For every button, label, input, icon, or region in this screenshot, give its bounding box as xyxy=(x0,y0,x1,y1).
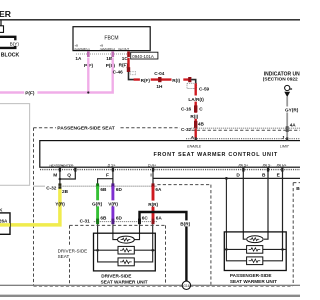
connector 6B tick at C-32 xyxy=(96,183,99,189)
svg-text:1A: 1A xyxy=(75,56,82,61)
svg-text:M: M xyxy=(290,87,293,91)
inline label P(F) xyxy=(24,89,37,95)
fuse block fragment wire xyxy=(0,21,2,27)
pin J tick xyxy=(286,137,288,140)
svg-text:P(F): P(F) xyxy=(25,90,35,95)
svg-text:(SECTION 0922: (SECTION 0922 xyxy=(263,77,298,83)
svg-text:6C: 6C xyxy=(142,216,149,221)
yellow wire over ref box xyxy=(0,223,10,227)
svg-text:HEATER-: HEATER- xyxy=(61,163,74,167)
svg-text:P(F): P(F) xyxy=(106,63,116,68)
label B(Y) xyxy=(9,40,22,46)
svg-text:B(: B( xyxy=(296,186,300,191)
svg-text:ER: ER xyxy=(0,9,12,19)
wire F jog xyxy=(98,179,113,187)
connector end tick xyxy=(188,77,191,82)
svg-text:6A: 6A xyxy=(155,187,162,192)
connector 4A tick at C-32 xyxy=(286,126,289,132)
fuse F (cut) xyxy=(0,26,4,33)
pin Q tick xyxy=(74,168,76,172)
svg-text:BLOCK: BLOCK xyxy=(1,53,20,59)
heater element R2 passenger xyxy=(247,246,263,254)
FBCM box xyxy=(73,27,150,51)
svg-text:LA/R(I): LA/R(I) xyxy=(188,97,204,102)
svg-text:C-59: C-59 xyxy=(199,86,210,91)
svg-text:6D: 6D xyxy=(116,187,123,192)
wire pin I down xyxy=(152,171,154,186)
connector C-32 bottom dotted line xyxy=(34,185,46,187)
svg-text:R(R): R(R) xyxy=(148,202,158,207)
wire GY(R) xyxy=(286,97,288,141)
svg-text:PASSENGER-SIDE SEAT: PASSENGER-SIDE SEAT xyxy=(57,126,114,132)
label P(F) under 1B xyxy=(105,62,116,68)
label P(F) under 1A xyxy=(83,62,94,68)
svg-text:Q: Q xyxy=(67,173,71,179)
connector 6C tick at C-31 xyxy=(138,219,141,225)
connector 6D tick at C-31 xyxy=(111,219,114,225)
FBCM connector comb xyxy=(76,53,146,55)
svg-text:DRIVER-SIDE: DRIVER-SIDE xyxy=(58,249,88,254)
passenger-side seat warmer unit box xyxy=(224,232,286,271)
thermostat ellipse xyxy=(118,236,135,243)
heater element R3 xyxy=(118,258,134,266)
inline label R(F) xyxy=(140,77,151,83)
svg-text:B(R): B(R) xyxy=(180,222,190,227)
svg-text:ENABLE: ENABLE xyxy=(187,144,201,148)
pin M tick xyxy=(59,168,61,172)
connector C-32 top dotted line xyxy=(191,127,300,129)
connector 6A tick at C-31 xyxy=(152,219,155,225)
bottom border xyxy=(0,295,300,297)
control unit top comb xyxy=(186,138,300,140)
wire 6D net below C-31 xyxy=(113,224,118,239)
svg-text:PA S-: PA S- xyxy=(263,164,273,168)
ground bus xyxy=(0,284,300,286)
pin F tick xyxy=(112,168,114,172)
svg-text:DRIVER-SIDE: DRIVER-SIDE xyxy=(101,273,131,278)
svg-text:R(F): R(F) xyxy=(141,78,151,83)
svg-text:(HAZARD)-1: (HAZARD)-1 xyxy=(75,47,91,51)
svg-text:6D: 6D xyxy=(116,216,123,221)
connector 6B tick at C-31 xyxy=(96,219,99,225)
heater element R3 passenger xyxy=(247,257,263,265)
svg-text:INDICATOR UN: INDICATOR UN xyxy=(264,72,300,78)
svg-text:R(I): R(I) xyxy=(190,114,198,119)
wire 6B net below C-31 xyxy=(97,224,99,250)
R3 connect left passenger xyxy=(226,249,246,260)
svg-text:FRONT SEAT WARMER CONTROL UNIT: FRONT SEAT WARMER CONTROL UNIT xyxy=(154,152,278,158)
wire 6A net below C-31 xyxy=(152,224,154,250)
svg-text:+B: +B xyxy=(100,43,104,47)
svg-text:V(R): V(R) xyxy=(108,201,118,206)
junction dot M/Q xyxy=(59,178,62,181)
pin D tick xyxy=(242,168,244,172)
heater element R2 xyxy=(118,246,134,254)
driver-side seat warmer unit box xyxy=(94,233,156,271)
heater rail passenger xyxy=(224,248,286,250)
wire link black corner xyxy=(129,72,135,80)
svg-text:2B: 2B xyxy=(62,189,69,194)
wire B net left vertical xyxy=(225,178,227,249)
svg-text:PA H+: PA H+ xyxy=(277,164,287,168)
wire B(Y) thick xyxy=(0,37,15,48)
connector C-31 dotted line xyxy=(94,221,157,223)
svg-text:1H: 1H xyxy=(156,84,163,89)
driver-side seat dashed box xyxy=(70,224,166,226)
svg-text:D H+: D H+ xyxy=(148,164,156,168)
rail dots xyxy=(96,249,99,252)
wire LA/R(I) vertical xyxy=(194,83,196,140)
svg-text:Y(R): Y(R) xyxy=(55,201,65,206)
svg-text:0940-101A: 0940-101A xyxy=(132,54,154,59)
inline label LA/R(I) xyxy=(188,96,205,102)
svg-text:4A: 4A xyxy=(290,122,297,127)
ground G16 xyxy=(182,281,190,289)
control unit bottom comb xyxy=(40,169,300,171)
wire B(R) thick ground wire xyxy=(140,212,187,281)
left faint box xyxy=(0,104,30,186)
svg-text:6B: 6B xyxy=(100,187,107,192)
wire pin Q join xyxy=(60,171,75,179)
indicator lamp circle xyxy=(285,85,290,90)
rail dots passenger xyxy=(225,248,228,251)
bottom dashed row xyxy=(34,286,294,288)
svg-text:-26A: -26A xyxy=(0,219,8,224)
wire Y(R) yellow xyxy=(0,189,60,225)
svg-text:C: C xyxy=(199,107,203,112)
wire pin M down xyxy=(59,171,61,186)
wire V(R) violet xyxy=(111,186,114,221)
pin 1B tick xyxy=(111,51,114,57)
heater rail xyxy=(94,249,156,251)
connector C-16 tick xyxy=(194,105,197,112)
thermostat ellipse passenger xyxy=(247,236,263,243)
pin A tick xyxy=(195,137,197,140)
left ref box K 26A xyxy=(0,213,10,234)
svg-text:D S+: D S+ xyxy=(108,164,116,168)
pin E tick xyxy=(281,168,283,172)
svg-text:C-31: C-31 xyxy=(80,219,91,224)
front seat warmer control unit box xyxy=(40,141,303,168)
svg-text:(HAZARD)-2: (HAZARD)-2 xyxy=(100,47,116,51)
inline label V(R) xyxy=(108,200,120,206)
svg-text:PASSENGER-SIDE: PASSENGER-SIDE xyxy=(230,273,272,278)
pin 1A tick xyxy=(87,51,90,57)
wire pin D down xyxy=(243,171,246,239)
connector 6A tick at C-32 xyxy=(152,183,155,189)
title rule xyxy=(0,19,300,21)
svg-text:SEAT WARMER UNIT: SEAT WARMER UNIT xyxy=(230,279,277,284)
inline label R(I) xyxy=(172,77,184,83)
wire pin E down xyxy=(282,171,284,249)
svg-text:+B: +B xyxy=(75,43,79,47)
svg-text:SEAT WARMER UNIT: SEAT WARMER UNIT xyxy=(101,279,148,284)
svg-text:6A: 6A xyxy=(156,216,163,221)
passenger jog wire xyxy=(153,177,300,179)
svg-text:4B: 4B xyxy=(198,122,205,127)
svg-text:R(I): R(I) xyxy=(172,78,180,83)
svg-text:B(Y): B(Y) xyxy=(10,41,20,46)
connector C-46 symbol xyxy=(130,72,135,75)
svg-text:C-16: C-16 xyxy=(181,107,192,112)
R3 connect right xyxy=(134,250,152,262)
pin 1C tick xyxy=(127,51,130,57)
wire pin F down xyxy=(112,171,114,186)
svg-text:G(R): G(R) xyxy=(92,201,103,206)
passenger-side seat dashed box top xyxy=(34,127,57,129)
svg-text:C-04: C-04 xyxy=(154,71,165,76)
R3 connect right passenger xyxy=(263,249,283,260)
svg-text:D: D xyxy=(236,173,240,179)
pin B tick xyxy=(267,168,269,172)
wire pin B down xyxy=(264,171,268,239)
svg-text:B: B xyxy=(262,173,266,179)
right mid dashed box xyxy=(157,184,211,186)
inline label B(R) xyxy=(180,220,192,226)
svg-text:CK: CK xyxy=(0,207,3,212)
wire P(F) from 1A xyxy=(87,58,89,93)
wire R(F) from 1C xyxy=(127,58,129,68)
pin I tick xyxy=(152,168,154,172)
wire link black elbow xyxy=(191,80,196,84)
svg-text:M: M xyxy=(53,173,57,179)
label C-32 top xyxy=(180,126,191,132)
R3 connect left xyxy=(98,250,118,262)
svg-text:E: E xyxy=(277,173,281,179)
connector C-59 symbol box xyxy=(187,83,197,88)
connector C-04 tick xyxy=(158,77,161,82)
svg-text:R(F): R(F) xyxy=(119,63,129,68)
wire R(R) red xyxy=(152,186,155,221)
svg-text:LIMIT: LIMIT xyxy=(280,144,290,148)
svg-text:PA S+: PA S+ xyxy=(238,164,248,168)
passenger-side seat dashed box right xyxy=(292,183,294,286)
wire G(R) green xyxy=(96,186,99,221)
connector C-46 tick xyxy=(127,67,130,72)
svg-text:GY(R): GY(R) xyxy=(285,108,299,113)
wire 6C net below C-31 xyxy=(134,224,139,239)
ref box 0940-101A xyxy=(131,52,158,59)
wire P(F) from 1B with corner xyxy=(0,58,113,93)
connector 6D tick at C-32 xyxy=(111,183,114,189)
svg-text:I: I xyxy=(150,173,152,179)
svg-text:6B: 6B xyxy=(100,216,107,221)
inline label G(R) xyxy=(91,200,104,206)
svg-text:SEAT: SEAT xyxy=(58,254,70,259)
svg-text:C-46: C-46 xyxy=(113,69,124,74)
passenger-side seat dashed box left xyxy=(33,128,35,286)
junction dot P(F) xyxy=(87,91,89,93)
svg-text:IG2 OUT: IG2 OUT xyxy=(118,47,129,51)
off-page triangle xyxy=(284,92,290,97)
inline label GY(R) xyxy=(281,107,295,113)
connector 4B tick at C-32 xyxy=(194,121,197,128)
svg-text:FBCM: FBCM xyxy=(104,36,118,42)
svg-text:C-32: C-32 xyxy=(46,185,57,190)
svg-text:C-32: C-32 xyxy=(181,127,192,132)
inline label R(I) lower xyxy=(190,113,201,119)
svg-text:G16: G16 xyxy=(183,284,190,288)
svg-text:F: F xyxy=(106,173,109,179)
inline label R(R) xyxy=(148,201,160,207)
wire R(F) horizontal xyxy=(134,78,190,80)
connector 2B tick at C-32 xyxy=(58,183,61,189)
jog dot xyxy=(225,177,228,180)
